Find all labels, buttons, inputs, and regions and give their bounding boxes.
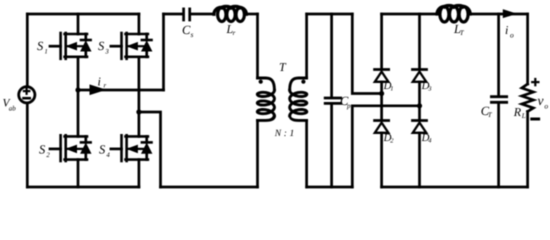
label S4 — [99, 143, 110, 160]
wire Lr to primary — [246, 13, 257, 16]
diode D3 — [413, 70, 427, 82]
wire primary lead down — [256, 14, 259, 78]
wire CT branch upper — [497, 14, 500, 95]
diode D4 — [413, 121, 427, 133]
current arrow i — [90, 85, 105, 94]
transformer T primary winding — [257, 78, 274, 120]
transistor S1 — [50, 33, 91, 59]
wire right rail lower — [526, 112, 529, 188]
svg-text:1: 1 — [390, 86, 393, 93]
wire bridge left leg lower — [380, 133, 383, 187]
wire bridge right leg middle — [418, 82, 421, 119]
svg-text:S: S — [99, 143, 106, 157]
svg-text:3: 3 — [104, 49, 109, 56]
wire Cs to Lr — [191, 13, 214, 16]
wire leg1 lower — [77, 160, 80, 187]
wire secondary lead down — [305, 120, 308, 187]
svg-text:S: S — [98, 39, 105, 53]
svg-text:R: R — [513, 105, 522, 119]
svg-text:p: p — [346, 102, 351, 110]
label plus — [532, 79, 538, 85]
transformer T secondary winding — [290, 78, 307, 120]
wire secondary top rail — [307, 13, 353, 16]
wire output bottom — [382, 186, 528, 189]
capacitor Cp branch lower wire — [330, 105, 333, 187]
inductor Lr — [214, 6, 247, 21]
svg-text:r: r — [104, 82, 107, 90]
wire bridge left leg upper — [380, 14, 383, 68]
capacitor Cp — [325, 98, 341, 103]
resistor RL — [522, 84, 534, 112]
svg-text:o: o — [510, 30, 514, 39]
source Vab — [19, 87, 35, 103]
wire tank vertical up — [162, 14, 165, 90]
wire output top left — [382, 13, 438, 16]
wire secondary bottom rail — [307, 186, 353, 189]
wire leg2 middle — [138, 57, 141, 137]
svg-text:L: L — [521, 112, 526, 120]
node A — [75, 87, 80, 92]
wire leg2 lower — [138, 160, 141, 187]
svg-text:r: r — [233, 29, 236, 37]
wire node B to tank return — [139, 112, 161, 187]
svg-text:i: i — [98, 75, 101, 89]
label D2 — [383, 132, 395, 145]
svg-text:ab: ab — [9, 105, 16, 113]
capacitor Cs — [184, 9, 190, 20]
label vo — [538, 93, 549, 111]
node bridge right — [417, 103, 422, 108]
wire tank top to Cs — [164, 13, 183, 16]
label LT — [453, 22, 465, 37]
wire leg1 middle — [77, 57, 80, 137]
transistor S2 — [50, 135, 91, 161]
wire bridge right leg lower — [418, 133, 421, 187]
wire bridge left leg middle — [380, 82, 383, 119]
wire secondary lead up — [305, 14, 308, 78]
svg-text:4: 4 — [106, 152, 110, 159]
label D1 — [383, 80, 394, 93]
wire primary lead bottom — [256, 120, 259, 187]
label D3 — [421, 80, 433, 93]
svg-text:i: i — [505, 23, 508, 37]
wire CT branch lower — [497, 104, 500, 187]
svg-text:N:1: N:1 — [274, 129, 297, 139]
transformer secondary dot — [301, 80, 305, 84]
svg-text:s: s — [191, 30, 194, 39]
capacitor CT — [492, 97, 507, 103]
label io — [505, 23, 514, 39]
label S3 — [98, 39, 109, 56]
wire leg2 upper — [138, 14, 141, 34]
transistor S3 — [111, 33, 152, 59]
svg-text:S: S — [39, 143, 46, 157]
label Lr — [226, 22, 236, 37]
node bridge left — [379, 91, 384, 96]
transistor S4 — [111, 135, 152, 161]
label i — [98, 75, 107, 90]
wire bridge right leg upper — [418, 14, 421, 68]
label Vab — [3, 98, 17, 113]
svg-text:2: 2 — [46, 152, 50, 159]
node B — [136, 109, 141, 114]
svg-text:o: o — [544, 102, 548, 111]
label minus — [532, 118, 539, 121]
wire secondary to bridge lower — [352, 106, 419, 187]
wire bottom rail left bridge — [27, 186, 139, 189]
label S1 — [37, 39, 48, 56]
wire output top right — [470, 13, 527, 16]
wire left rail lower — [26, 104, 29, 188]
label Cs — [182, 23, 194, 39]
svg-text:v: v — [538, 93, 544, 108]
inductor LT — [437, 5, 470, 22]
transformer primary dot — [259, 80, 263, 84]
label Cp — [340, 94, 351, 110]
wire right rail upper — [526, 14, 529, 84]
current arrow io — [503, 10, 515, 18]
label CT — [481, 104, 493, 119]
diode D1 — [375, 70, 389, 82]
wire node A to tank — [78, 89, 164, 92]
svg-text:1: 1 — [44, 49, 47, 56]
wire top rail left bridge — [27, 13, 139, 16]
svg-text:3: 3 — [427, 86, 432, 93]
wire leg1 upper — [77, 14, 80, 34]
diode D2 — [375, 121, 389, 133]
label D4 — [421, 132, 433, 145]
wire left rail upper — [26, 14, 29, 87]
wire secondary to bridge upper — [352, 14, 381, 94]
wire tank bottom return — [161, 186, 258, 189]
svg-text:S: S — [37, 39, 44, 53]
label S2 — [39, 143, 50, 160]
capacitor Cp branch upper wire — [330, 14, 333, 97]
label RL — [513, 105, 526, 120]
